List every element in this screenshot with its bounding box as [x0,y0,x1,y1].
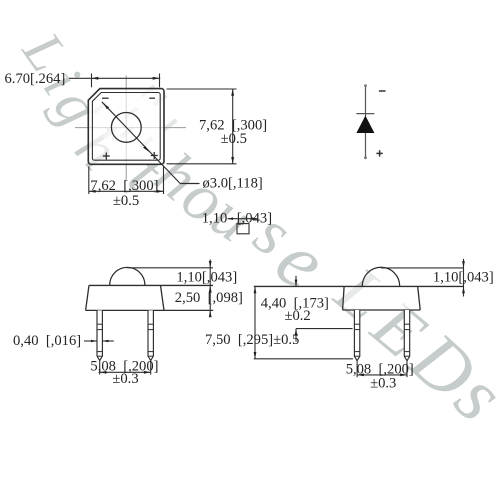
svg-text:7,50 [,295]±0.5: 7,50 [,295]±0.5 [205,332,299,348]
svg-text:0,40 [,016]: 0,40 [,016] [13,333,81,349]
svg-text:7,62 [,300]: 7,62 [,300] [90,178,158,194]
svg-text:1,10[,043]: 1,10[,043] [176,270,237,286]
svg-text:ø3.0[,118]: ø3.0[,118] [203,175,263,191]
svg-text:1,10[,043]: 1,10[,043] [433,269,494,285]
svg-text:±0.3: ±0.3 [112,371,138,387]
svg-text:±0.5: ±0.5 [113,193,139,209]
svg-text:6.70[.264]: 6.70[.264] [5,71,66,87]
svg-text:±0.3: ±0.3 [370,376,396,392]
svg-text:1,10: 1,10 [202,210,228,226]
svg-text:2,50 [,098]: 2,50 [,098] [175,290,243,306]
svg-text:±0.5: ±0.5 [221,131,247,147]
svg-text:±0.2: ±0.2 [284,308,310,324]
